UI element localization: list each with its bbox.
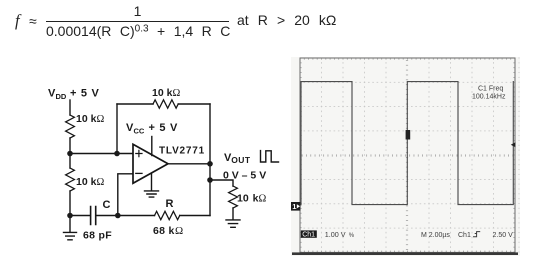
svg-text:10 k: 10 k: [76, 113, 97, 125]
svg-text:CC: CC: [134, 127, 145, 136]
svg-text:Ch1: Ch1: [302, 232, 315, 239]
svg-text:100.14kHz: 100.14kHz: [472, 94, 506, 101]
scope bottom border: [292, 252, 518, 255]
svg-text:Ω: Ω: [259, 194, 267, 205]
ground op-amp: [145, 191, 159, 197]
svg-text:1.00 V: 1.00 V: [325, 230, 346, 239]
svg-text:C1 Freq: C1 Freq: [478, 86, 503, 93]
wire output rail down: [209, 164, 211, 216]
wire VDD stub: [69, 100, 71, 115]
resistor R-load 10k: [229, 186, 238, 208]
wire left rail lower: [69, 191, 71, 216]
wire to load resistor: [210, 180, 233, 186]
node load junction: [207, 177, 213, 183]
svg-text:C: C: [103, 199, 111, 211]
wire bottom left to cap: [70, 215, 90, 217]
svg-text:10 k: 10 k: [152, 87, 173, 99]
resistor R-feedback 10k: [153, 100, 178, 108]
svg-text:1: 1: [292, 202, 296, 211]
ground left: [64, 232, 77, 239]
capacitor C 68pF: [91, 207, 96, 225]
node A junction: [67, 151, 73, 157]
scope graticule dotted grid: [304, 81, 306, 84]
svg-text:10 k: 10 k: [237, 193, 259, 205]
trigger point marker: [406, 130, 411, 140]
node C junction: [67, 213, 73, 219]
scope waveform trace: [301, 82, 513, 205]
wire feedback top left: [117, 103, 153, 105]
wire output: [168, 163, 210, 165]
op-amp U1 TLV2771: [133, 144, 168, 183]
formula condition: [237, 13, 336, 27]
formula f approx: [15, 11, 20, 31]
node D junction: [115, 213, 121, 219]
svg-text:TLV2771: TLV2771: [159, 146, 205, 157]
resistor R-top-left 10k: [66, 115, 75, 138]
wire feedback right vertical: [209, 104, 211, 164]
svg-text:68 pF: 68 pF: [83, 230, 112, 242]
svg-text:68 k: 68 k: [153, 225, 175, 237]
svg-text:Ch1: Ch1: [458, 232, 471, 239]
wire cap to R: [97, 215, 155, 217]
wire load ground stem: [232, 208, 234, 220]
op-amp minus sign: [136, 172, 142, 174]
wire ground stem left: [69, 216, 71, 233]
svg-text:M 2.00µs: M 2.00µs: [421, 232, 450, 239]
scope graticule border: [300, 58, 515, 252]
svg-text:Ω: Ω: [173, 88, 181, 99]
svg-text:10 k: 10 k: [76, 176, 97, 188]
Vout squarewave icon: [261, 151, 279, 162]
node B junction: [114, 151, 120, 157]
svg-text:2.50 V: 2.50 V: [493, 232, 514, 239]
trigger level arrow: [511, 142, 516, 147]
resistor R-bottom-left 10k: [66, 168, 75, 191]
formula denominator: [46, 24, 256, 38]
wire Vcc stem: [151, 137, 153, 156]
svg-text:0 V – 5 V: 0 V – 5 V: [223, 170, 266, 182]
formula fraction bar: [46, 21, 229, 22]
svg-text:%: %: [349, 233, 355, 239]
wire noninverting input: [70, 153, 133, 155]
svg-text:R: R: [166, 198, 174, 210]
resistor R 68k: [155, 211, 180, 219]
channel 1 position marker: [291, 202, 300, 211]
oscilloscope screenshot: [291, 57, 520, 256]
svg-text:DD: DD: [56, 92, 67, 101]
svg-text:+ 5 V: + 5 V: [149, 122, 178, 134]
wire inverting input: [118, 174, 133, 216]
wire feedback left vertical: [116, 104, 118, 154]
op-amp plus sign: [136, 150, 142, 156]
svg-text:OUT: OUT: [231, 155, 251, 165]
wire left rail middle: [69, 138, 71, 168]
wire op-amp ground stem: [151, 173, 153, 190]
wire R to output rail: [180, 215, 210, 217]
readout Ch1 scale: [301, 230, 317, 237]
ground load: [226, 220, 240, 227]
svg-text:Ω: Ω: [97, 177, 105, 188]
svg-text:+ 5 V: + 5 V: [70, 88, 99, 100]
formula numerator 1: [46, 4, 229, 18]
svg-text:Ω: Ω: [175, 225, 183, 237]
svg-text:Ω: Ω: [97, 114, 105, 125]
wire feedback top right: [178, 103, 210, 105]
node VOUT junction: [207, 161, 213, 167]
scope background: [291, 57, 520, 256]
